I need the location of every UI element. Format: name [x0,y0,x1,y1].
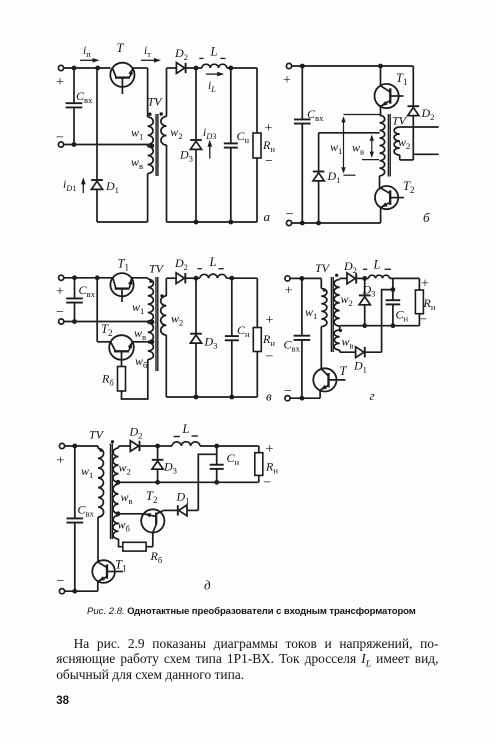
wire top rail (b) [292,65,414,67]
transformer TV secondary w2 (a) [166,68,168,117]
svg-text:T: T [340,364,348,378]
wire bottom rail (v) [166,396,257,398]
node Cvx top (g) [300,276,305,281]
svg-text:−: − [57,574,65,589]
capacitor Cvx (g) [301,278,303,335]
svg-text:+: + [57,454,65,469]
transistor T (g) [313,368,336,391]
wire w2 bottom to wv (g) [339,326,341,330]
resistor Rn (d) [258,446,260,453]
label L dashes (v) [198,268,202,270]
svg-text:б: б [423,210,430,225]
svg-text:+: + [265,121,273,136]
wire T2 collector to D1 (d) [164,509,178,511]
input terminal - (g) [285,396,290,401]
polarity dot w1 (d) [99,449,102,452]
svg-text:T: T [117,41,125,55]
diode D3 (g) [364,278,366,295]
transformer TV demagnetizing winding wv (a) [147,145,149,147]
polarity dot w2 (d) [111,440,114,443]
wire output top (b) [400,126,439,128]
wire D1 riser to Cn (d) [198,454,216,510]
node w2 bottom (d) [116,480,121,485]
node Cn top (a) [228,66,233,71]
current arrow i_L (a) [206,73,219,75]
transistor T2 (b) [375,186,398,209]
wire L to Rn (d) [200,445,259,447]
wire bottom left rail (a) [97,221,148,223]
current arrow i_p (a) [80,59,95,61]
svg-text:−: − [286,207,294,222]
transformer TV winding w1 (d) [97,446,99,449]
node Cn bottom (g) [391,323,396,328]
paragraph line 2 [56,651,438,672]
node D3 top (d) [155,444,160,449]
wire L to Cn (a) [227,67,257,69]
svg-text:+: + [283,73,291,88]
node junction Cvx bottom (a) [72,142,77,147]
diode D2 (a) [176,63,184,74]
node D1 link (g) [391,287,396,292]
inductor L (a) [202,64,227,68]
capacitor Cvx (v) [74,278,76,299]
wire top rail (d) [65,445,98,447]
node T2 branch (v) [95,275,100,280]
inductor L (d) [172,442,200,446]
node junction D1 top (a) [95,66,100,71]
circuit d: input terminal + (d) [59,443,64,448]
wire wb bottom to Rb (d) [119,539,123,547]
diode D2 (v) [176,273,184,284]
node Cn bottom (d) [214,480,219,485]
node Cvx bottom (b) [300,221,305,226]
svg-text:−: − [264,476,272,491]
svg-text:L: L [210,45,218,59]
svg-text:+: + [285,284,293,299]
inductor L (g) [369,275,390,278]
svg-text:д: д [204,578,211,593]
wire input minus (a) [64,144,148,146]
transistor T1 (d) [92,560,115,583]
svg-text:TV: TV [148,95,164,109]
wire T2 emitter (b) [380,207,382,223]
svg-text:TV: TV [315,261,331,275]
node w1/wv tap (v) [150,320,155,325]
node Cvx bottom (g) [300,396,305,401]
diode D3 (d) [157,446,159,460]
transformer TV secondary w2 (b) [394,127,400,155]
transistor T (a) [110,63,134,87]
dimension arrow wv (b) [371,136,373,156]
node Cn top (d) [214,444,219,449]
wire secondary top rail (g) [340,277,347,279]
dimension tick bottom w1 (b) [344,174,356,176]
wire wv bottom to D1 (g) [339,350,341,352]
input terminal - (b) [286,220,291,225]
winding wv (d) [113,484,119,514]
wire input minus to tap (v) [64,321,148,323]
diode D2 (g) [347,273,355,284]
circuit b: input terminal + (b) [286,63,291,68]
wire bottom right rail (a) [167,221,258,223]
svg-text:в: в [266,389,272,404]
label L dashes (g) [363,268,367,270]
wire D1 to riser (d) [187,509,198,511]
input terminal - (v) [59,319,64,324]
transformer TV secondary w2 (g) [339,278,341,279]
inductor L (v) [200,274,227,278]
wire top rail (g) [290,277,321,279]
wire L to Rn (g) [390,277,420,279]
diode D1 (g) [356,347,364,358]
wire L to Rn (v) [226,277,257,279]
dimension arrow w1 (b) [343,118,345,172]
wire wv bottom (a) [147,174,149,223]
wire bottom rail (g) [290,397,320,399]
node wv bottom (d) [116,511,121,516]
svg-text:L: L [182,422,190,436]
winding wb (d) [113,516,119,540]
node T1 collector (b) [378,64,383,69]
transformer TV core (d) [110,444,112,540]
wire T1 emitter to w1 (v) [132,277,148,279]
wire T1 collector (b) [380,66,382,86]
transformer TV core (g) [330,277,332,352]
node Cvx bottom (d) [72,589,77,594]
node Cn bottom (v) [229,395,234,400]
capacitor Cvx (d) [74,446,76,518]
capacitor Cn (a) [230,68,232,143]
current arrow i_t (a) [141,59,156,61]
diode D1 (a) [96,68,98,181]
diode D2 (d) [130,441,138,452]
transformer TV winding w1 (g) [320,278,322,288]
node D3 top (g) [362,276,367,281]
resistor Rn (g) [418,278,420,290]
transformer TV secondary w2 (v) [165,278,167,296]
circuit g: input terminal + (g) [285,276,290,281]
paragraph line 3 [56,667,438,683]
polarity dot w2 (a) [160,112,163,115]
diode D3 (v) [195,278,197,334]
transistor T2 (d) [141,509,164,532]
node D3 top (a) [194,66,199,71]
svg-text:+: + [266,313,274,328]
node wv/wb tap (v) [150,339,155,344]
node Cvx bottom (v) [72,319,77,324]
svg-text:−: − [265,154,273,169]
node D3 bottom (a) [194,220,199,225]
svg-text:L: L [373,257,381,271]
node D1 bottom (b) [316,221,321,226]
svg-text:TV: TV [89,428,105,442]
capacitor Cn (d) [216,446,218,465]
wire wv to T2 emitter (d) [119,513,144,515]
diode D2 (b) [412,66,414,106]
node D3 bottom (g) [362,323,367,328]
input terminal - (d) [59,589,64,594]
node w1/wv tap (a) [149,144,154,149]
svg-text:+: + [56,285,64,300]
current arrow i_D1 (a) [82,182,84,193]
wire secondary top rail (d) [119,445,131,447]
transformer TV winding w1 (v) [147,278,149,279]
capacitor Cn (v) [231,278,233,336]
diode D3 (a) [195,68,197,139]
transformer TV core (b) [387,114,389,177]
capacitor Cvx (a) [73,68,75,103]
polarity dot w1 (a) [148,113,151,116]
node Cn top (v) [229,276,234,281]
svg-text:L: L [209,255,217,269]
node Cvx top (v) [72,275,77,280]
resistor Rn (a) [256,68,258,133]
svg-text:+: + [266,442,274,457]
label L dashes (a) [199,57,203,59]
wire D1 to winding tap (b) [319,132,380,134]
circuit v: input terminal + (v) [59,275,64,280]
wire T2 collector (b) [379,176,381,188]
wire collector rail to w1 (a) [132,67,147,69]
wire bottom rail (b) [292,222,381,224]
resistor Rn (v) [256,278,258,327]
svg-text:+: + [56,75,64,90]
wire top rail left (a) [64,67,111,69]
polarity dot w2 (v) [160,294,163,297]
wire w1 to T collector (g) [320,327,322,369]
dimension tick top w1 (b) [344,114,380,116]
capacitor Cvx (b) [301,66,303,119]
svg-text:TV: TV [392,114,408,128]
transistor T1 (v) [110,273,133,296]
wire top rail (v) [64,277,113,279]
wire secondary top rail (a) [167,67,177,69]
wire secondary top rail (v) [166,277,176,279]
wire Rb to wb bottom (v) [122,360,148,400]
transistor T2 (v) [109,335,134,360]
wire Rb to T2 base (d) [146,546,153,548]
wire T1 emitter to winding (b) [380,106,382,115]
capacitor Cn (g) [392,278,394,300]
dimension tick bottom wv (b) [362,159,379,161]
node D3 bottom (v) [194,395,199,400]
polarity dot w1 (g) [323,288,326,291]
wire w1 to T1 collector (d) [97,517,99,562]
wire T1 emitter (d) [97,581,99,591]
svg-text:−: − [56,131,64,146]
transformer TV winding w1 (b) [380,115,385,176]
diode D1 (d) [179,505,187,516]
resistor Rb (d) [123,542,146,551]
svg-text:а: а [264,209,271,224]
wire w2 bottom rail (d) [119,481,259,483]
current arrow i_D3 (a) [209,145,211,159]
wire T2 emitter to tap (v) [132,341,148,343]
svg-text:−: − [284,384,292,399]
page number 38 [56,695,69,707]
transformer TV core (a) [155,114,157,176]
node junction Cvx top (a) [72,66,77,71]
svg-text:−: − [419,313,427,328]
winding wv (g) [334,330,340,350]
input terminal + (a) [58,65,63,70]
svg-text:−: − [266,350,274,365]
node D3 top (v) [194,276,199,281]
input terminal - (a) [58,142,63,147]
wire T emitter (g) [319,390,321,399]
node D3 bottom (d) [155,480,160,485]
polarity dot w1 (v) [149,280,152,283]
transformer TV secondary w2 (d) [118,446,120,448]
wire output bottom (b) [413,153,438,155]
wire T2 collector branch (v) [96,278,98,342]
winding wv (v) [147,321,149,323]
transistor T1 (b) [375,84,399,108]
node Cvx top (b) [300,64,305,69]
wire w2 bottom to D2 line (b) [399,155,401,160]
polarity dot wv (g) [339,329,342,332]
node Cn bottom (a) [228,220,233,225]
svg-text:TV: TV [149,262,165,276]
transformer TV primary w1 (a) [148,117,154,145]
node Cvx top (d) [72,444,77,449]
label L dashes (d) [174,436,180,438]
polarity dot w2 (g) [335,274,338,277]
wire w2 bottom rail (g) [340,325,420,327]
paragraph line 1 [74,636,439,652]
transformer TV core (v) [155,277,157,371]
figure caption [3,606,496,617]
svg-text:+: + [421,277,429,292]
svg-text:г: г [370,388,375,403]
wire bottom rail (d) [65,590,98,592]
wire D1 riser (g) [382,290,393,353]
svg-text:−: − [56,305,64,320]
diode D1 (b) [318,181,320,223]
resistor Rb (v) [118,367,126,392]
winding wb (v) [148,343,154,360]
